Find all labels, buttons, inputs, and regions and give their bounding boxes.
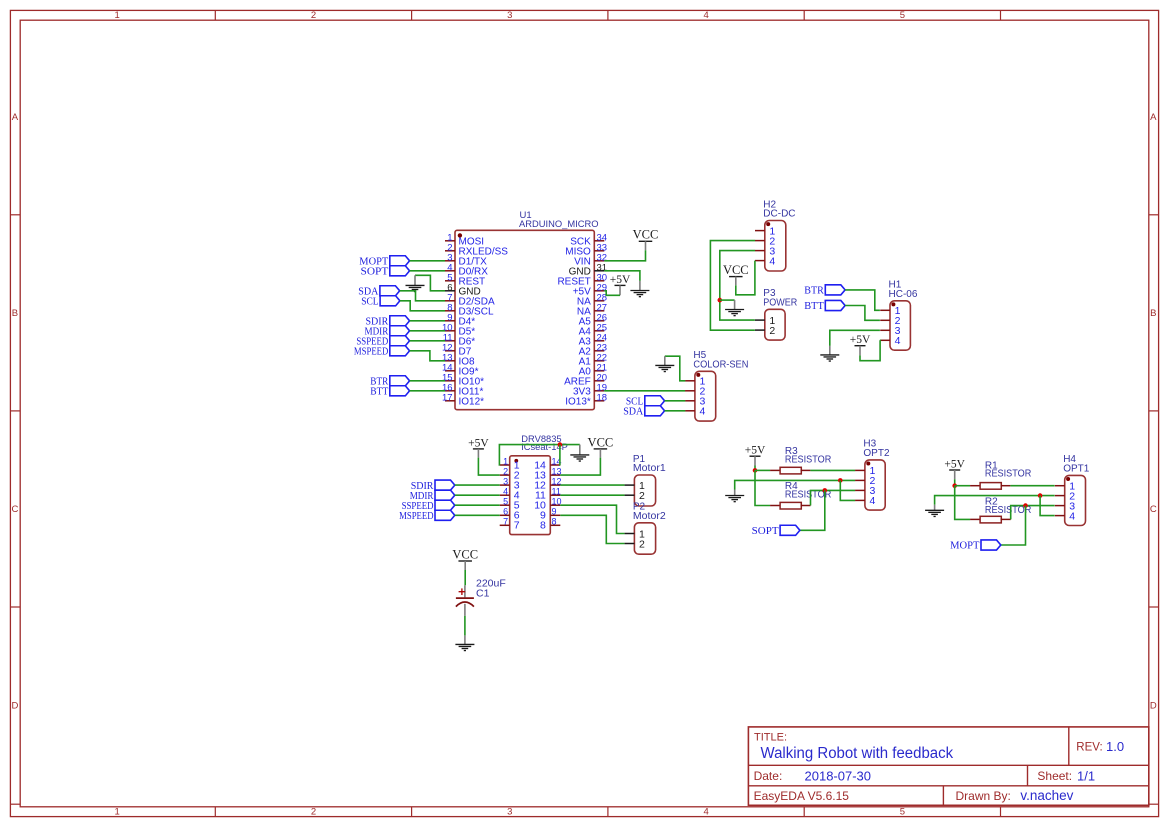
wire BTT to U1 pin16 [410,390,445,392]
resistor R2 lead right [1001,518,1011,520]
svg-text:RESISTOR: RESISTOR [985,469,1031,480]
power flag +5V at R1 [944,458,965,479]
svg-text:VCC: VCC [723,263,749,277]
svg-text:BTR: BTR [804,286,824,297]
svg-text:+5V: +5V [850,334,871,346]
wire +5V to junction [754,466,756,471]
wire R2 to H4 pin3 [1011,506,1055,520]
resistor R3 lead right [801,469,811,471]
wire SDIR to U2 pin3 [455,484,500,486]
resistor R4 lead left [770,505,780,507]
wire SSPEED to U2 pin5 [455,504,500,506]
wire MDIR to U2 pin4 [455,494,500,496]
svg-text:1: 1 [503,456,508,466]
resistor R1 lead right [1001,485,1011,487]
net port SOPT [361,266,410,278]
svg-text:+5V: +5V [944,458,965,470]
title block [748,727,1148,805]
svg-text:4: 4 [503,487,508,497]
svg-text:C1: C1 [476,587,490,599]
wire H4 pin2 to ground [935,496,1055,505]
wire VCC to U2 pin13 [560,458,600,476]
wire SCL to U1 pin8 [400,301,445,311]
wire VCC to U1 pin32 VIN [604,250,645,261]
net port BTT [370,386,409,398]
wire SDA to U1 pin7 [400,291,445,301]
svg-text:Motor2: Motor2 [633,511,666,522]
svg-text:MOPT: MOPT [950,541,980,552]
svg-text:4: 4 [703,10,708,21]
wire H1 pin4 to +5V [860,340,880,360]
connector P1 Motor1 [625,454,667,506]
svg-text:OPT1: OPT1 [1063,464,1090,475]
net port MDIR [365,326,410,338]
net port SDA at H5 [623,406,664,418]
junction dot H3 pin4 net [838,478,843,483]
svg-text:2: 2 [311,10,316,21]
svg-text:Drawn By:: Drawn By: [956,789,1011,803]
svg-text:4: 4 [1069,510,1075,522]
resistor R3 [780,446,831,474]
power flag VCC at U1 VIN [633,228,659,251]
svg-text:VCC: VCC [588,435,614,449]
svg-text:C: C [1150,504,1157,515]
svg-text:7: 7 [503,517,508,527]
wire H5 pin1 to ground [665,356,686,381]
wire SOPT to U1 pin4 [410,270,445,272]
svg-text:8: 8 [540,520,546,532]
wire SDA to H5 pin4 [665,410,686,412]
resistor R2 lead left [970,518,980,520]
svg-text:6: 6 [503,507,508,517]
net port SOPT at H3 [752,525,800,537]
svg-text:1: 1 [115,806,120,817]
svg-text:1.0: 1.0 [1106,739,1124,754]
svg-text:Motor1: Motor1 [633,463,666,474]
net port MSPEED at U2 [399,510,455,522]
ground at U1 pin31 [630,281,649,297]
svg-text:VCC: VCC [633,228,659,242]
resistor R1 [980,460,1031,489]
svg-text:3: 3 [507,806,512,817]
wire MOPT to U1 pin3 [410,260,445,262]
svg-text:SOPT: SOPT [361,267,389,278]
svg-text:ARDUINO_MICRO: ARDUINO_MICRO [519,219,599,230]
svg-text:HC-06: HC-06 [889,289,918,300]
resistor R4 lead right [801,505,811,507]
connector H1 HC-06 [880,280,918,351]
wire junction to R4 [755,470,770,505]
wire H3 pin2 to ground [735,480,856,489]
net port BTR at H1 [804,285,845,297]
wire U2 pin9 to P2 pin2 [560,515,624,543]
svg-text:REV:: REV: [1076,742,1102,754]
svg-text:Sheet:: Sheet: [1037,769,1072,783]
wire MSPEED to U2 pin6 [455,514,500,516]
wire junction to SOPT [800,490,825,530]
power flag +5V at H1 [850,334,871,355]
wire junction to MOPT [1001,506,1026,545]
ground at H5 pin1 [655,356,674,371]
power flag VCC at H2 [723,263,749,285]
svg-text:EasyEDA V5.6.15: EasyEDA V5.6.15 [754,789,850,803]
ground at U2 pin14 net [570,445,589,461]
svg-text:D: D [11,700,18,711]
wire C1 to ground [464,616,466,636]
svg-text:A: A [12,112,19,123]
wire H1 pin3 to ground [830,330,880,346]
svg-text:v.nachev: v.nachev [1020,788,1073,803]
svg-text:BTT: BTT [370,387,389,398]
net port MOPT [359,256,409,268]
net port SDIR at U2 [411,480,455,492]
ground at P3 net [725,300,744,316]
svg-text:MSPEED: MSPEED [399,511,434,522]
wire SSPEED to U1 pin11 [410,340,445,342]
svg-text:1/1: 1/1 [1077,768,1095,783]
wire BTT to H1 pin2 [845,306,880,321]
wire MDIR to U1 pin10 [410,330,445,332]
svg-text:8: 8 [552,517,557,527]
svg-text:3: 3 [507,10,512,21]
chip U2 DRV8835 ICseat-14P [500,434,568,535]
svg-text:RESISTOR: RESISTOR [785,454,831,465]
junction dot +5V R1 net [952,483,957,488]
svg-text:D: D [1150,700,1157,711]
net port MOPT at H4 [950,540,1001,552]
svg-text:2: 2 [311,806,316,817]
svg-text:2: 2 [503,467,508,477]
svg-text:POWER: POWER [763,298,797,309]
power flag VCC at U2 [588,435,614,457]
svg-text:SOPT: SOPT [752,526,780,537]
resistor R4 [780,481,831,509]
net port BTT at H1 [804,300,845,312]
wire R4 to H3 pin3 [811,490,856,505]
svg-text:B: B [1150,308,1156,319]
svg-text:2: 2 [639,538,645,550]
resistor R2 [980,497,1031,523]
wire H2 pin2 to P3 pin2 [710,241,755,331]
connector P3 POWER [755,288,797,340]
svg-text:MSPEED: MSPEED [354,347,389,358]
connector H3 OPT2 [855,439,890,510]
svg-text:DC-DC: DC-DC [763,209,795,220]
wire junction to R1 [955,485,970,487]
wire U2 pin12 to P1 pin1 [560,484,624,486]
wire +5V to junction [954,479,956,485]
wire R1 to H4 pin1 [1010,485,1054,487]
wire +5V to U2 pin2 [478,458,499,476]
junction dot H2.3 net [718,298,723,303]
connector H4 OPT1 [1055,454,1090,525]
svg-text:10: 10 [552,497,562,507]
svg-text:C: C [11,504,18,515]
net port SCL at H5 [626,396,665,408]
svg-text:VCC: VCC [452,547,478,561]
wire BTR to U1 pin15 [410,380,445,382]
svg-text:17: 17 [442,392,453,403]
svg-text:2018-07-30: 2018-07-30 [805,768,872,783]
svg-text:12: 12 [552,477,562,487]
wire junction to ground [720,299,735,301]
svg-text:18: 18 [597,392,608,403]
wire MSPEED to U1 pin13 [410,351,445,361]
connector H5 COLOR-SEN [685,350,748,421]
power flag +5V at U2 [468,437,489,457]
wire junction to H3 pin4 [840,480,855,500]
wire H2 pin4 to VCC [736,261,755,295]
svg-text:4: 4 [769,255,775,267]
wire U2 pin1 to ground net [499,445,579,465]
wire H2 pin3 to P3 pin1 [720,251,755,321]
junction dot +5V R3 net [753,468,758,473]
resistor R1 lead left [970,485,980,487]
power flag +5V at R3 [745,445,766,466]
svg-text:5: 5 [900,806,905,817]
wire BTR to H1 pin1 [845,290,880,310]
svg-text:4: 4 [870,495,876,507]
svg-text:B: B [12,308,18,319]
wire U1 pin31 GND to ground [604,271,640,281]
junction dot U2 pin14 net [558,442,563,447]
junction dot H4 pin4 net [1038,493,1043,498]
net port SSPEED at U2 [402,500,455,512]
wire U2 pin11 to P1 pin2 [560,494,624,496]
svg-text:OPT2: OPT2 [863,448,890,459]
net port SSPEED [356,336,409,348]
svg-text:5: 5 [900,10,905,21]
net port MSPEED [354,346,410,358]
svg-text:5: 5 [503,497,508,507]
wire junction to U2 pin14 [559,445,561,465]
svg-text:1: 1 [115,10,120,21]
wire junction to R2 [955,486,970,520]
wire SDIR to U1 pin9 [410,320,445,322]
svg-text:A: A [1150,112,1157,123]
svg-text:SCL: SCL [361,297,378,308]
svg-text:+5V: +5V [745,445,766,457]
chip U1 ARDUINO_MICRO [442,210,607,410]
net port MDIR at U2 [410,490,455,502]
capacitor C1 220uF polarized [456,578,506,616]
wire U1 pin29 to +5V [604,291,620,296]
svg-text:4: 4 [700,406,706,418]
wire SCL to H5 pin3 [665,400,686,402]
power flag VCC at C1 [452,547,478,570]
ground at C1 [455,635,474,650]
resistor R3 lead left [770,469,780,471]
svg-text:+5V: +5V [468,437,489,449]
svg-text:13: 13 [552,467,562,477]
svg-text:Date:: Date: [754,769,783,783]
wire U2 pin10 to P2 pin1 [560,505,624,533]
junction dot SOPT net [823,488,828,493]
svg-text:11: 11 [552,487,561,497]
net port SDIR [366,316,410,328]
wire junction to R3 [755,469,770,471]
svg-text:4: 4 [703,806,708,817]
net port BTR [370,376,409,388]
junction dot MOPT net [1023,503,1028,508]
connector H2 DC-DC [755,199,796,271]
wire junction to H4 pin4 [1040,496,1055,516]
ground at H4 pin2 [925,505,944,517]
ground at H3 pin2 [725,490,744,502]
wire R3 to H3 pin1 [810,469,855,471]
wire U1 pin6 GND to ground [415,275,445,291]
net port SDA [358,286,399,298]
wire VCC to C1 [464,570,466,585]
svg-text:2: 2 [769,325,775,337]
svg-text:4: 4 [895,335,901,347]
svg-text:COLOR-SEN: COLOR-SEN [693,360,748,371]
svg-text:9: 9 [552,507,557,517]
ground at U1 pin6 [406,275,425,291]
power flag +5V at U1 pin28 [610,274,631,296]
svg-text:IO13*: IO13* [565,396,591,407]
svg-text:7: 7 [514,520,520,532]
svg-text:+5V: +5V [610,274,631,286]
svg-text:BTT: BTT [804,301,824,312]
wire U1 pin19 3V3 to H5 pin2 [604,390,685,392]
svg-text:IO12*: IO12* [459,396,485,407]
svg-text:Walking Robot with feedback: Walking Robot with feedback [761,745,954,762]
ground at H1 pin3 [820,346,839,361]
svg-text:2: 2 [639,490,645,502]
svg-text:SDA: SDA [623,407,643,418]
connector P2 Motor2 [625,502,667,555]
svg-text:3: 3 [503,477,508,487]
svg-text:TITLE:: TITLE: [754,732,787,744]
net port SCL [361,296,400,308]
